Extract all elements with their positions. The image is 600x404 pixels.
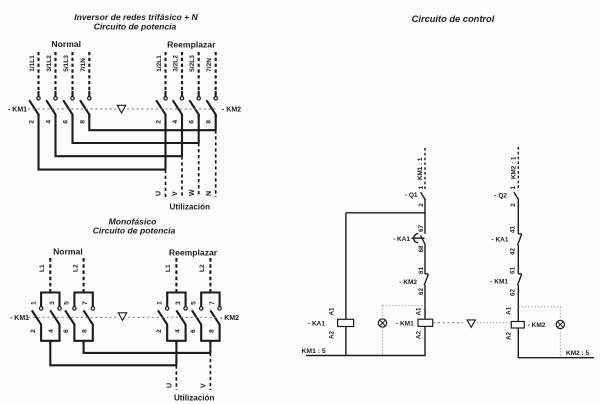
signal lamp KM1 [378, 319, 386, 327]
svg-text:U: U [156, 191, 163, 196]
svg-text:KM2 : 5: KM2 : 5 [566, 350, 590, 357]
contactor double-pole unit KM2 poles 5-6/7-8 [190, 258, 221, 344]
svg-text:- KM2: - KM2 [528, 322, 546, 329]
dashed lead to terminal V (monofasico) [209, 353, 211, 390]
svg-text:4: 4 [174, 329, 181, 333]
svg-text:2: 2 [29, 120, 36, 124]
wire junction to KA1 coil rail [346, 212, 425, 214]
wire KM2 unit1 output vertical [175, 341, 177, 366]
svg-text:3/1L2: 3/1L2 [46, 55, 53, 72]
wire KM2 pole 2 vertical [164, 114, 166, 169]
svg-text:1: 1 [30, 301, 37, 305]
svg-text:1: 1 [157, 301, 164, 305]
svg-text:Circuito de potencia: Circuito de potencia [94, 22, 177, 32]
svg-text:5: 5 [191, 301, 198, 305]
timed contact KA1 67-68 [393, 225, 425, 253]
svg-text:3: 3 [49, 301, 56, 305]
contactor double-pole unit KM2 poles 1-2/3-4 [156, 258, 187, 344]
svg-text:- KA1: - KA1 [393, 236, 410, 243]
svg-text:6: 6 [190, 329, 197, 333]
contactor pole KM2 7/2N-8 [206, 52, 218, 124]
wire KM1 contact to KM2 coil [517, 285, 519, 322]
svg-text:7/2N: 7/2N [206, 58, 213, 72]
dashed lead to terminal N [215, 130, 217, 197]
contactor pole KM2 1/2L1-2 [156, 52, 168, 124]
svg-text:- Q2: - Q2 [494, 193, 507, 200]
svg-text:Inversor de redes trifásico +: Inversor de redes trifásico + N [74, 12, 198, 22]
svg-text:1/2L1: 1/2L1 [156, 55, 163, 72]
svg-text:KM1 : 5: KM1 : 5 [302, 348, 326, 355]
svg-text:Circuito de control: Circuito de control [412, 14, 495, 24]
wire KM2 unit2 output vertical [209, 341, 211, 353]
dashed lead to terminal U [165, 170, 167, 197]
svg-text:- KA1: - KA1 [492, 237, 509, 244]
svg-text:1/1L1: 1/1L1 [29, 55, 36, 72]
wire dashed supply lead KM2:1 [517, 147, 519, 191]
coil KM1 A1-A2 [396, 307, 433, 339]
mechanical interlock triangle (control) [467, 320, 475, 327]
interlock contact KM1 61-62 (NC) [490, 267, 521, 297]
signal lamp KM2 [556, 320, 564, 328]
contactor pole KM1 3/1L2-4 [46, 52, 58, 124]
wire dashed supply lead KM1:1 [424, 148, 426, 191]
svg-text:7: 7 [82, 301, 89, 305]
dotted lamp wire bottom (KM1) [382, 327, 384, 355]
svg-text:A1: A1 [506, 306, 513, 315]
svg-text:L2: L2 [199, 264, 206, 272]
svg-text:- KM1: - KM1 [490, 279, 508, 286]
svg-text:U: U [167, 383, 174, 388]
wire KA1 coil rail vertical [345, 213, 347, 319]
breaker contact Q2 [494, 186, 518, 207]
mechanical interlock triangle (trifasico) [117, 105, 125, 113]
wire KM1 unit1 to KM2 unit1 (U) [50, 341, 176, 366]
svg-text:Reemplazar: Reemplazar [169, 248, 218, 258]
coil KA1 A1-A2 [308, 307, 354, 339]
svg-text:L1: L1 [39, 264, 46, 272]
svg-text:1: 1 [418, 186, 425, 190]
wire KA1 contact to KM2 contact [424, 244, 426, 274]
svg-text:62: 62 [418, 288, 425, 296]
svg-text:- KA1: - KA1 [308, 321, 325, 328]
svg-text:KM2 : 1: KM2 : 1 [511, 156, 518, 179]
svg-text:2: 2 [156, 329, 163, 333]
svg-text:Circuito de potencia: Circuito de potencia [93, 226, 176, 236]
svg-text:L2: L2 [72, 264, 79, 272]
svg-text:41: 41 [510, 226, 517, 234]
svg-text:2: 2 [30, 329, 37, 333]
svg-text:W: W [189, 189, 196, 196]
svg-text:A1: A1 [329, 307, 336, 316]
contactor pole KM2 3/2L2-4 [172, 52, 184, 124]
coil KM2 A1-A2 [506, 306, 546, 340]
svg-text:5/2L3: 5/2L3 [189, 55, 196, 72]
svg-text:6: 6 [63, 329, 70, 333]
svg-text:62: 62 [510, 289, 517, 297]
svg-text:3/2L2: 3/2L2 [173, 55, 180, 72]
wire bottom rail KM2:5 [518, 357, 594, 359]
dashed lead to terminal W [198, 143, 200, 197]
KM1 KM2 mechanical linkage dashed line (monofasico) [28, 316, 117, 318]
dotted lamp wire bottom (KM2) [559, 329, 561, 358]
contactor double-pole unit KM1 poles 1-2/3-4 [30, 258, 61, 344]
breaker contact Q1 [405, 186, 425, 207]
svg-text:Utilización: Utilización [174, 394, 215, 403]
contact KA1 41-42 (NC) [492, 226, 522, 256]
svg-text:- Q1: - Q1 [405, 192, 418, 199]
svg-text:8: 8 [82, 329, 89, 333]
wire KM1:8 to KM2:8 / N [89, 115, 215, 131]
svg-text:A2: A2 [415, 330, 422, 339]
svg-text:A2: A2 [506, 331, 513, 340]
contactor pole KM1 7/1N-8 [79, 52, 91, 124]
interlock contact KM2 61-62 (NC) [399, 267, 428, 296]
svg-text:KM1 : 1: KM1 : 1 [417, 157, 424, 180]
svg-text:2: 2 [510, 203, 517, 207]
svg-text:N: N [206, 191, 213, 196]
svg-text:8: 8 [208, 329, 215, 333]
svg-text:2: 2 [418, 203, 425, 207]
svg-text:Normal: Normal [51, 39, 81, 49]
svg-text:6: 6 [63, 120, 70, 124]
svg-text:- KM2: - KM2 [399, 279, 417, 286]
svg-text:2: 2 [156, 120, 163, 124]
svg-text:4: 4 [172, 120, 179, 124]
dashed lead to terminal V [181, 156, 183, 197]
contactor pole KM2 5/2L3-6 [189, 52, 201, 124]
wire KM1 coil to bottom rail [424, 326, 426, 355]
contactor double-pole unit KM1 poles 5-6/7-8 [63, 258, 94, 344]
svg-text:3: 3 [175, 301, 182, 305]
svg-text:Utilización: Utilización [170, 203, 211, 212]
wire KM2 pole 6 vertical [198, 114, 200, 143]
svg-text:4: 4 [48, 329, 55, 333]
svg-text:6: 6 [189, 120, 196, 124]
wire Q2 to KA1 contact [517, 199, 519, 234]
svg-text:61: 61 [418, 267, 425, 275]
wire Q1 to KA1 contact [424, 199, 426, 234]
wire KM2 coil to bottom rail [517, 328, 519, 358]
svg-text:Normal: Normal [53, 247, 83, 257]
svg-text:- KM1: - KM1 [10, 315, 29, 322]
svg-text:8: 8 [206, 120, 213, 124]
dotted lamp wire top (KM2) [518, 306, 560, 308]
svg-text:68: 68 [418, 245, 425, 253]
wire KM2 pole 4 vertical [181, 114, 183, 156]
contactor pole KM1 5/1L3-6 [63, 52, 75, 124]
svg-text:5: 5 [64, 301, 71, 305]
wire KM2 contact to KM1 coil [424, 285, 426, 319]
wire KM1 unit2 to KM2 unit2 (V) [84, 341, 211, 353]
wire KM1:6 to KM2:6 / W [73, 115, 199, 144]
svg-text:61: 61 [510, 267, 517, 275]
dashed lead to terminal U (monofasico) [175, 365, 177, 390]
svg-text:7: 7 [209, 301, 216, 305]
svg-text:V: V [201, 383, 208, 388]
wire KA1 to KM1 contact [517, 245, 519, 274]
svg-text:- KM2: - KM2 [220, 315, 239, 322]
KM1 KM2 mechanical linkage dashed line (trifasico) [28, 108, 116, 110]
svg-text:7/1N: 7/1N [80, 58, 87, 72]
wire KA1 coil to bottom rail [345, 327, 347, 356]
wire KM2 pole 8 vertical [215, 114, 217, 130]
svg-text:- KM1: - KM1 [8, 107, 27, 114]
svg-text:8: 8 [79, 120, 86, 124]
svg-text:5/1L3: 5/1L3 [63, 55, 70, 72]
svg-text:- KM1: - KM1 [396, 320, 414, 327]
svg-text:A2: A2 [329, 330, 336, 339]
svg-text:42: 42 [510, 248, 517, 256]
svg-text:67: 67 [418, 225, 425, 233]
svg-text:4: 4 [46, 120, 53, 124]
svg-text:- KM2: - KM2 [222, 107, 241, 114]
svg-text:V: V [172, 191, 179, 196]
mechanical interlock dashed link KM1-KM2 [433, 322, 463, 324]
svg-text:A1: A1 [415, 307, 422, 316]
svg-text:L1: L1 [165, 264, 172, 272]
svg-text:Reemplazar: Reemplazar [167, 40, 216, 50]
dotted lamp wire top (KM1) [383, 304, 426, 306]
wire bottom rail KM1:5 [306, 355, 426, 357]
wire KM1:4 to KM2:4 / V [56, 115, 183, 157]
wire KM1:2 to KM2:2 / U [39, 115, 166, 170]
mechanical interlock triangle (monofasico) [118, 313, 126, 321]
svg-text:1: 1 [510, 186, 517, 190]
contactor pole KM1 1/1L1-2 [29, 52, 41, 124]
